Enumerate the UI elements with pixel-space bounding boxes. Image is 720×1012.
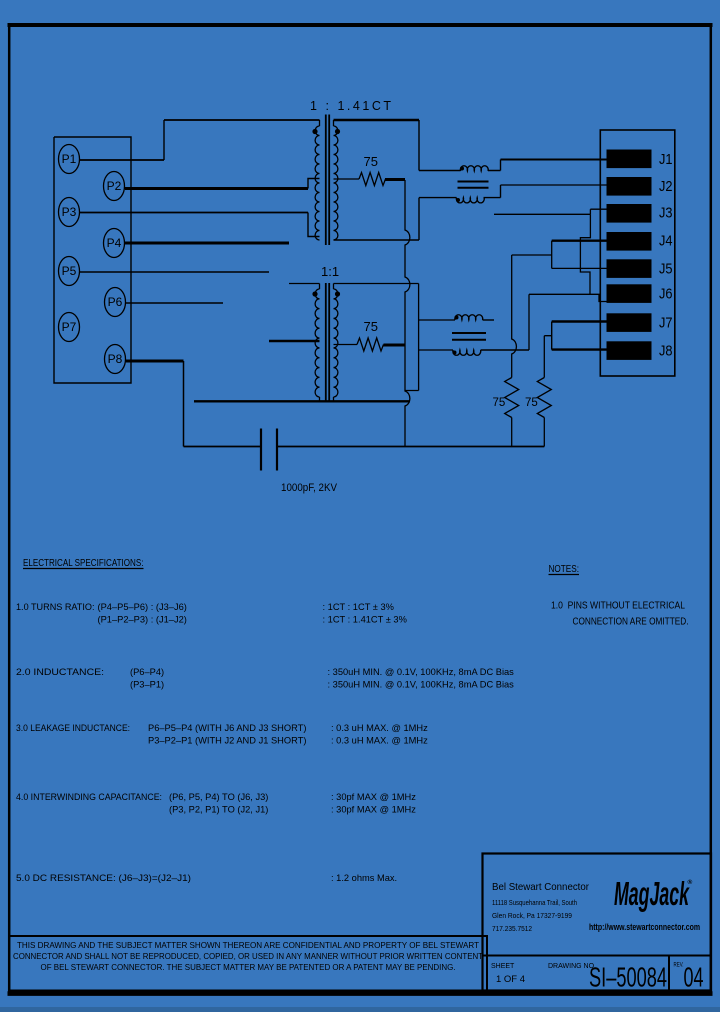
capacitor C1 1000pF 2KV	[261, 429, 277, 471]
wire J4	[552, 239, 607, 241]
svg-text:P6: P6	[108, 295, 123, 309]
svg-text:717.235.7512: 717.235.7512	[492, 924, 532, 933]
svg-text:75: 75	[364, 319, 378, 334]
svg-text:REV.: REV.	[674, 963, 684, 969]
wire CM2 bottom to riser	[481, 349, 529, 351]
svg-text:SI–50084: SI–50084	[589, 962, 667, 993]
disclaimer box	[9, 936, 487, 991]
svg-text:(P6–P4): (P6–P4)	[130, 667, 164, 677]
svg-text:1 : 1.41CT: 1 : 1.41CT	[310, 99, 391, 113]
svg-text:J7: J7	[659, 314, 673, 331]
svg-text:CONNECTION ARE OMITTED.: CONNECTION ARE OMITTED.	[573, 617, 689, 628]
transformer T1	[312, 115, 340, 246]
pad P4	[104, 229, 125, 258]
pin J4	[607, 232, 673, 251]
resistor R1 75	[359, 173, 385, 186]
wire winding bottoms to bus	[320, 397, 334, 401]
svg-text:(P1–P2–P3) : (J1–J2): (P1–P2–P3) : (J1–J2)	[98, 615, 187, 625]
spec 1.0 turns ratio	[16, 602, 407, 625]
svg-text:ELECTRICAL SPECIFICATIONS:: ELECTRICAL SPECIFICATIONS:	[23, 558, 144, 569]
svg-text:Glen Rock, Pa 17327-9199: Glen Rock, Pa 17327-9199	[492, 911, 572, 920]
svg-text:1.0 TURNS RATIO:: 1.0 TURNS RATIO:	[16, 602, 95, 612]
svg-text:: 0.3 uH MAX. @ 1MHz: : 0.3 uH MAX. @ 1MHz	[331, 736, 428, 746]
pin J3	[607, 204, 673, 223]
note 1.0 text	[551, 601, 689, 628]
svg-text:P7: P7	[62, 320, 77, 334]
svg-text:: 30pf MAX @ 1MHz: : 30pf MAX @ 1MHz	[331, 805, 416, 815]
svg-text:P3–P2–P1 (WITH J2 AND J1 SHORT: P3–P2–P1 (WITH J2 AND J1 SHORT)	[148, 736, 306, 746]
title block divider vertical rev	[668, 956, 670, 991]
pin J5	[607, 259, 673, 278]
wire P6 stub	[126, 302, 223, 304]
resistor R4 75	[357, 338, 383, 351]
wire J4-J5 link	[551, 241, 553, 269]
wire T2 secondary center tap	[334, 344, 358, 346]
wire T2 primary center tap stub	[269, 340, 320, 342]
pad P6	[105, 288, 126, 317]
pin J1	[607, 150, 673, 169]
svg-text:: 350uH MIN. @ 0.1V, 100KHz,: : 350uH MIN. @ 0.1V, 100KHz, 8mA DC Bias	[328, 680, 515, 690]
resistor R3 bottom lead	[543, 418, 545, 447]
svg-text:J1: J1	[659, 151, 673, 168]
wire J5	[552, 267, 607, 269]
svg-text:Bel Stewart Connector: Bel Stewart Connector	[492, 881, 589, 893]
pad P5	[59, 257, 80, 286]
svg-text:P2: P2	[107, 179, 122, 193]
P-pin block box	[54, 137, 131, 383]
spec 4.0 interwinding capacitance	[16, 792, 416, 815]
wire CM1 bottom to J2	[484, 185, 608, 198]
svg-text:P8: P8	[108, 352, 123, 366]
wire CM2 top right stub	[483, 319, 494, 321]
svg-text:: 350uH MIN. @ 0.1V, 100KHz,: : 350uH MIN. @ 0.1V, 100KHz, 8mA DC Bias	[328, 667, 515, 677]
svg-text:J2: J2	[659, 178, 673, 195]
heading NOTES	[549, 563, 580, 575]
svg-text:(P3–P1): (P3–P1)	[130, 680, 164, 690]
wire J7	[552, 320, 607, 322]
wire J3	[494, 209, 607, 214]
wire T1 secondary center tap	[334, 178, 360, 180]
wire 75 branch right	[544, 336, 551, 378]
choke CM1	[456, 166, 489, 203]
svg-text:1:1: 1:1	[321, 264, 339, 279]
svg-text:J5: J5	[659, 260, 673, 277]
svg-text:1000pF, 2KV: 1000pF, 2KV	[281, 482, 338, 494]
svg-text:3.0 LEAKAGE INDUCTANCE:: 3.0 LEAKAGE INDUCTANCE:	[16, 723, 130, 733]
svg-text:http://www.stewartconnector.co: http://www.stewartconnector.com	[589, 922, 700, 932]
svg-text:5.0 DC RESISTANCE: (J6–J3)=(J: 5.0 DC RESISTANCE: (J6–J3)=(J2–J1)	[16, 873, 191, 883]
wire R1 output thick	[385, 178, 405, 181]
wire P8 vertical drop	[183, 361, 185, 447]
heading ELECTRICAL SPECIFICATIONS	[23, 558, 144, 569]
svg-text:4.0 INTERWINDING CAPACITANCE: 4.0 INTERWINDING CAPACITANCE:	[16, 792, 162, 802]
resistor R2 75 vertical	[505, 378, 519, 418]
pad P1	[59, 145, 80, 174]
svg-text:P3: P3	[62, 205, 77, 219]
svg-text:J8: J8	[659, 343, 673, 360]
svg-text:04: 04	[684, 962, 704, 993]
title block divider horizontal	[483, 955, 712, 957]
svg-text:NOTES:: NOTES:	[549, 563, 580, 575]
wire P4 stub	[125, 242, 289, 245]
wire T1 secondary top to choke CM1	[334, 119, 420, 121]
svg-text:P5: P5	[62, 264, 77, 278]
pin J8	[607, 341, 673, 360]
svg-text:(P6, P5, P4) TO (J6, J3): (P6, P5, P4) TO (J6, J3)	[169, 792, 268, 802]
wire T2 primary bottom bus	[194, 400, 410, 402]
svg-text:(P4–P5–P6) : (J3–J6): (P4–P5–P6) : (J3–J6)	[98, 602, 187, 612]
svg-text:J4: J4	[659, 233, 673, 250]
pad P7	[59, 313, 80, 342]
wire J7-J8 link	[551, 322, 553, 350]
svg-text:: 30pf MAX @ 1MHz: : 30pf MAX @ 1MHz	[331, 792, 416, 802]
connector J block outline	[600, 130, 675, 376]
svg-text:(P3, P2, P1) TO (J2, J1): (P3, P2, P1) TO (J2, J1)	[169, 805, 268, 815]
wire P2 to T1 primary center tap	[125, 179, 320, 189]
svg-text:®: ®	[688, 878, 693, 886]
svg-text:75: 75	[493, 397, 506, 409]
resistor R2 lead with hop	[512, 255, 517, 378]
transformer T2	[312, 283, 340, 402]
pad P2	[104, 172, 125, 201]
wire CM1 top to J1	[488, 160, 607, 171]
bus wire left of capacitor	[184, 446, 261, 448]
wire T2 secondary top to CM2	[334, 284, 456, 391]
svg-text:1.0 PINS WITHOUT ELECTRICAL: 1.0 PINS WITHOUT ELECTRICAL	[551, 601, 685, 612]
wire 75 branch left	[512, 254, 552, 256]
wire J8	[552, 348, 607, 350]
spec 2.0 inductance	[16, 667, 514, 690]
wire P1 to T1 primary top	[79, 120, 320, 160]
svg-text:J3: J3	[659, 205, 673, 222]
wire P3 to T1 primary bottom	[79, 213, 320, 237]
choke CM2	[452, 315, 486, 356]
svg-text:OF BEL STEWART CONNECTOR. THE: OF BEL STEWART CONNECTOR. THE SUBJECT MA…	[41, 962, 456, 972]
bus wire right of capacitor	[278, 446, 544, 448]
svg-text:: 1CT : 1CT ± 3%: : 1CT : 1CT ± 3%	[323, 602, 394, 612]
disclaimer text	[13, 940, 483, 972]
svg-text:: 1CT : 1.41CT ± 3%: : 1CT : 1.41CT ± 3%	[323, 615, 407, 625]
wire P5 stub	[79, 271, 269, 273]
svg-text:75: 75	[364, 154, 378, 169]
wire R4 output thick	[384, 344, 406, 347]
spec 3.0 leakage inductance	[16, 723, 428, 746]
spec 5.0 dc resistance	[16, 873, 397, 883]
svg-text:1 OF 4: 1 OF 4	[496, 974, 525, 985]
svg-text:THIS DRAWING AND THE SUBJECT M: THIS DRAWING AND THE SUBJECT MATTER SHOW…	[17, 940, 479, 950]
svg-text:75: 75	[525, 397, 538, 409]
bottom edge shade	[0, 1007, 720, 1012]
svg-text:: 1.2 ohms Max.: : 1.2 ohms Max.	[331, 873, 397, 883]
pad P3	[59, 198, 80, 227]
pin J6	[607, 284, 673, 303]
border frame	[8, 23, 713, 27]
svg-text:CONNECTOR AND SHALL NOT BE REP: CONNECTOR AND SHALL NOT BE REPRODUCED, C…	[13, 951, 483, 961]
svg-text:MagJack: MagJack	[614, 875, 690, 912]
wire J3-J6 link staircase	[580, 214, 590, 294]
title block outer box	[483, 854, 712, 991]
MagJack logo	[614, 875, 693, 912]
svg-text:2.0 INDUCTANCE:: 2.0 INDUCTANCE:	[16, 667, 104, 677]
wire J6 horizontal	[529, 294, 607, 301]
svg-text:: 0.3 uH MAX. @ 1MHz: : 0.3 uH MAX. @ 1MHz	[331, 723, 428, 733]
resistor R2 bottom lead	[511, 418, 513, 447]
svg-text:P6–P5–P4 (WITH J6 AND J3 SHORT: P6–P5–P4 (WITH J6 AND J3 SHORT)	[148, 723, 306, 733]
wire CM2 bottom riser	[528, 294, 530, 350]
wire P8 to capacitor bus	[126, 360, 184, 363]
wire T2 primary top stub	[289, 283, 320, 285]
svg-text:SHEET: SHEET	[491, 963, 515, 970]
svg-text:P4: P4	[107, 236, 122, 250]
svg-text:J6: J6	[659, 286, 673, 303]
pin J2	[607, 177, 673, 196]
wire T1 secondary bottom to choke CM1 lower	[334, 198, 457, 240]
svg-text:11118 Susquehanna Trail, South: 11118 Susquehanna Trail, South	[492, 898, 577, 907]
pad P8	[105, 345, 126, 374]
node vertical wire V405 with hops	[405, 180, 410, 447]
pin J7	[607, 313, 673, 332]
resistor R3 75 vertical	[537, 378, 551, 418]
svg-text:P1: P1	[62, 152, 77, 166]
